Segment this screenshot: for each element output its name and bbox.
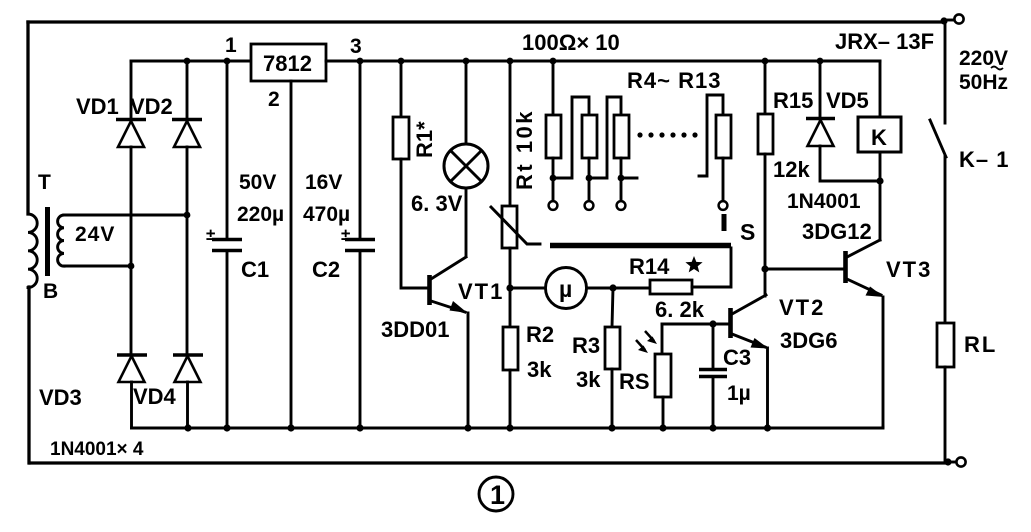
svg-text:470µ: 470µ — [303, 203, 350, 226]
svg-text:VD3: VD3 — [39, 385, 82, 410]
node R1 rail junction — [398, 58, 405, 65]
svg-text:VD4: VD4 — [133, 384, 177, 409]
node 220V top terminal — [940, 17, 947, 24]
svg-text:7812: 7812 — [263, 51, 312, 76]
node R3/R14 junction — [609, 284, 616, 291]
svg-text:VT1: VT1 — [458, 279, 504, 304]
node R15 rail junction — [762, 58, 769, 65]
node 7812 pin2 ground junction — [287, 424, 294, 431]
transformer T secondary winding 24V — [58, 215, 64, 266]
diode VD2 — [186, 61, 189, 120]
node R3 ground junction — [608, 424, 615, 431]
svg-text:T: T — [38, 171, 51, 194]
capacitor C1 — [226, 61, 229, 238]
diode VD1 — [130, 61, 133, 120]
thermistor Rt — [509, 61, 512, 206]
wire left frame upper segment — [26, 22, 29, 214]
resistor R2 — [509, 288, 512, 327]
wire secondary bottom lead to VD1/VD3 node — [64, 265, 131, 268]
svg-text:RL: RL — [964, 332, 997, 357]
selector wiper bar — [550, 243, 731, 249]
lamp 6.3V — [465, 61, 468, 144]
node R5 tap terminal — [585, 201, 594, 210]
node VD5 rail junction — [817, 58, 824, 65]
diode VD5 — [819, 61, 822, 119]
switch K-1 — [930, 120, 946, 157]
svg-text:±: ± — [206, 225, 215, 244]
relay K coil — [879, 61, 882, 117]
svg-text:R3: R3 — [572, 333, 600, 358]
svg-text:K– 1: K– 1 — [959, 147, 1009, 172]
wire +12V output rail — [326, 60, 880, 63]
wire VD1 anode down to VD3 — [130, 147, 133, 355]
svg-text:3DG6: 3DG6 — [780, 328, 837, 353]
node VD5/K/VT3 junction — [876, 177, 883, 184]
node R4 rail junction — [550, 58, 557, 65]
svg-text:µ: µ — [559, 276, 572, 302]
svg-text:Rt 10k: Rt 10k — [512, 109, 537, 190]
transistor VT1 3DD01 — [427, 275, 432, 305]
node R6 tap terminal — [617, 201, 626, 210]
node lamp rail junction — [463, 58, 470, 65]
wire right branch upper (to K-1) — [944, 22, 947, 123]
wire 7812 pin2 down to ground bus — [290, 81, 293, 428]
svg-text:±: ± — [341, 225, 350, 244]
svg-text:S: S — [740, 219, 755, 245]
node R4 tap terminal — [549, 201, 558, 210]
svg-text:C3: C3 — [723, 345, 751, 370]
svg-text:K: K — [871, 125, 887, 150]
svg-text:B: B — [43, 280, 58, 303]
node secondary top lead junction — [184, 212, 191, 219]
svg-text:R2: R2 — [526, 322, 554, 347]
node C2 rail junction — [357, 58, 364, 65]
wire series link R5-R6 — [589, 97, 621, 178]
node C2 ground junction — [356, 424, 363, 431]
svg-text:R1*: R1* — [412, 121, 437, 158]
resistor R1 — [400, 61, 403, 117]
svg-text:50V: 50V — [239, 171, 276, 194]
svg-text:1: 1 — [225, 34, 237, 57]
resistor R3 — [612, 288, 613, 327]
svg-text:50Hz: 50Hz — [959, 71, 1008, 94]
transformer T primary winding — [28, 214, 37, 288]
node R13 tap terminal — [719, 201, 728, 210]
photoresistor RS — [661, 324, 664, 354]
svg-text:VD1: VD1 — [76, 94, 119, 119]
svg-text:16V: 16V — [305, 171, 342, 194]
resistor R4 — [552, 61, 555, 115]
resistor R13 — [716, 115, 731, 158]
node VT3 base junction — [761, 265, 768, 272]
transistor VT2 3DG6 — [732, 295, 766, 314]
svg-text:100Ω× 10: 100Ω× 10 — [522, 30, 620, 55]
svg-text:12k: 12k — [773, 157, 810, 182]
svg-text:R14: R14 — [629, 254, 670, 279]
selector wiper contact S — [722, 214, 727, 231]
svg-text:VD2: VD2 — [130, 94, 173, 119]
node VD2 top junction — [184, 58, 191, 65]
node VD4 ground junction — [184, 424, 191, 431]
svg-text:1N4001× 4: 1N4001× 4 — [50, 439, 144, 460]
regulator U1 7812 — [251, 44, 326, 81]
svg-text:VD5: VD5 — [826, 88, 869, 113]
svg-text:C1: C1 — [241, 257, 269, 282]
node VT1 emitter ground junction — [464, 424, 471, 431]
svg-text:2: 2 — [268, 88, 280, 111]
svg-text:3DD01: 3DD01 — [381, 317, 449, 342]
svg-text:3k: 3k — [576, 367, 601, 392]
wire bottom frame (220V return) — [30, 461, 948, 464]
svg-text:1µ: 1µ — [727, 382, 751, 405]
transformer T core — [45, 207, 50, 276]
resistor RL — [937, 323, 954, 367]
svg-text:6. 3V: 6. 3V — [411, 191, 463, 216]
svg-text:1N4001: 1N4001 — [787, 190, 861, 213]
node C1 top junction — [224, 58, 231, 65]
wire ground bus — [132, 427, 884, 428]
capacitor C3 — [709, 320, 716, 327]
svg-text:VT3: VT3 — [886, 257, 932, 282]
node C3 ground junction — [709, 424, 716, 431]
node R6 bottom junction — [618, 175, 625, 182]
svg-text:220V: 220V — [959, 47, 1008, 70]
resistor R15 — [764, 61, 767, 114]
transistor VT3 3DG12 — [847, 240, 880, 257]
node R5 bottom junction — [586, 175, 593, 182]
node VT1 base / meter junction — [506, 284, 513, 291]
node VT2 emitter ground junction — [764, 424, 771, 431]
wire top frame (220V live rail) — [28, 20, 944, 23]
wire series link into R13 — [699, 95, 723, 176]
wire rectifier input rail (+DC rail to 7812 pin1) — [131, 60, 251, 63]
svg-text:3DG12: 3DG12 — [802, 219, 872, 244]
wire secondary top lead to VD2/VD4 node — [64, 214, 187, 217]
resistor R5 — [582, 115, 597, 158]
svg-text:C2: C2 — [312, 257, 340, 282]
wire series link R4-R5 — [553, 97, 589, 178]
wire VD3 anode to ground bus — [130, 382, 133, 428]
light arrows — [636, 340, 645, 350]
svg-text:6. 2k: 6. 2k — [655, 297, 705, 322]
svg-text:3: 3 — [350, 35, 362, 58]
node R2 ground junction — [506, 424, 513, 431]
node Rt rail junction — [507, 58, 514, 65]
node RS ground junction — [659, 424, 666, 431]
figure number 1 — [479, 477, 513, 511]
wire R6 stub to omitted section — [621, 177, 637, 180]
node C1 ground junction — [223, 424, 230, 431]
svg-text:JRX– 13F: JRX– 13F — [835, 29, 934, 54]
svg-text:1: 1 — [490, 480, 505, 510]
resistor R6 — [614, 115, 629, 158]
meter M (microammeter) — [510, 287, 545, 290]
capacitor C2 — [359, 61, 362, 238]
wire R1 bottom to VT1 base — [401, 159, 427, 288]
svg-text:R4~ R13: R4~ R13 — [627, 68, 721, 93]
wire VD4 anode to ground bus — [186, 382, 189, 428]
diode VD4 — [173, 353, 203, 356]
svg-text:RS: RS — [619, 369, 650, 394]
node 220V bottom terminal — [944, 458, 951, 465]
svg-text:VT2: VT2 — [779, 295, 825, 320]
svg-text:3k: 3k — [527, 357, 552, 382]
node secondary bottom lead junction — [128, 263, 135, 270]
wire right branch lower (RL to bottom) — [944, 367, 947, 462]
svg-text:220µ: 220µ — [237, 203, 284, 226]
node R4 bottom junction — [550, 175, 557, 182]
diode VD3 — [117, 353, 147, 356]
ellipsis omitted resistors — [637, 132, 642, 137]
svg-text:R15: R15 — [773, 88, 813, 113]
wire left frame lower segment — [27, 287, 30, 463]
wire VD2 anode down to VD4 — [186, 147, 189, 355]
svg-text:24V: 24V — [75, 223, 115, 246]
resistor R14 — [613, 287, 650, 290]
